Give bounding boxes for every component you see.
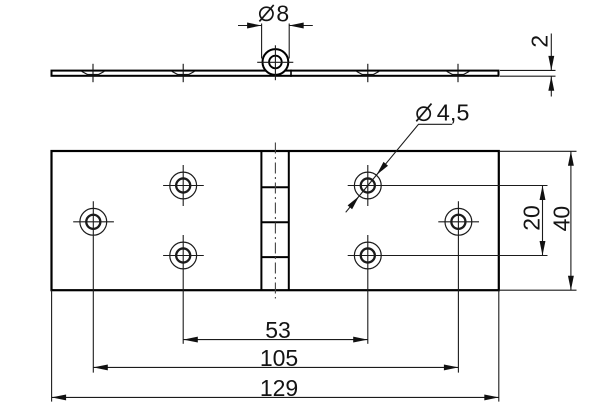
40 extension lines: [500, 151, 577, 290]
side view plate outline: [52, 71, 499, 76]
53 dimension text: [265, 317, 291, 343]
20 dimension text (rotated): [518, 205, 544, 231]
thickness 2 dimension text (rotated): [527, 35, 553, 48]
plan view hinge body outline: [52, 151, 499, 290]
hole E lower middle-right (plan view): [348, 235, 548, 344]
svg-text:40: 40: [549, 206, 575, 232]
svg-text:8: 8: [276, 0, 289, 26]
40 dimension text (rotated): [549, 206, 575, 232]
countersink hole 2 (side view, x=183.2): [172, 64, 195, 82]
hinge pin inner circle (side view): [269, 56, 282, 69]
dia4,5 leader line: [346, 124, 453, 212]
countersink hole 1 (side view, x=93): [82, 64, 105, 82]
right leaf edge at barrel: [290, 70, 292, 77]
barrel crosshair: [257, 45, 293, 80]
svg-text:53: 53: [265, 317, 291, 343]
129 dimension line and arrows: [52, 394, 499, 400]
dia8 extension lines: [262, 24, 290, 59]
countersink hole 3 (side view, x=367.8): [357, 64, 380, 82]
dia8 dimension line and arrows: [238, 23, 313, 29]
thickness 2 extension lines: [500, 70, 556, 76]
knuckle joint line 2: [261, 221, 288, 223]
hole C lower middle-left (plan view): [163, 235, 204, 344]
hole B upper middle-left (plan view): [163, 165, 204, 206]
hole D upper middle-right (plan view): [348, 165, 548, 206]
40 dimension line and arrows: [568, 151, 574, 290]
105 dimension line and arrows: [93, 364, 458, 370]
105 dimension text: [260, 345, 298, 371]
dia8 dimension text: [276, 0, 289, 26]
hole A left (plan view): [73, 201, 114, 372]
knuckle left edge (plan view): [260, 151, 262, 290]
knuckle right edge (plan view): [288, 151, 290, 290]
countersink hole 4 (side view, x=458): [447, 64, 470, 82]
129 extension lines: [52, 290, 499, 401]
dia4,5 leader arrowheads: [348, 162, 388, 209]
thickness 2 dimension line and arrows: [548, 34, 554, 97]
hinge barrel outer circle (side view): [263, 49, 289, 75]
hinge axis centerline (dash-dot): [274, 143, 276, 299]
dia8 diameter symbol: [259, 5, 273, 22]
svg-text:105: 105: [260, 345, 298, 371]
knuckle joint line 3: [261, 256, 288, 258]
129 dimension text: [260, 375, 298, 401]
svg-text:4,5: 4,5: [437, 100, 470, 126]
dia4,5 label text: [437, 100, 470, 126]
dia4,5 diameter symbol: [416, 104, 431, 122]
svg-text:2: 2: [527, 35, 553, 48]
hole F right (plan view): [438, 201, 479, 372]
20 dimension line and arrows: [540, 186, 546, 256]
53 dimension line and arrows: [183, 337, 367, 343]
svg-text:129: 129: [260, 375, 298, 401]
knuckle joint line 1: [261, 186, 288, 188]
svg-text:20: 20: [518, 205, 544, 231]
